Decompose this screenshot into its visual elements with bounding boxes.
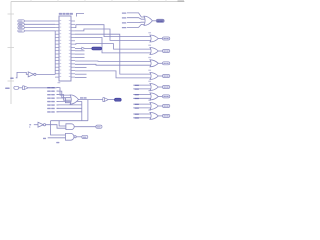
output label O11 — [82, 135, 88, 138]
sheet border left — [10, 2, 12, 105]
input label R8b — [135, 117, 139, 118]
output label RO4 — [162, 75, 169, 78]
sheet zone tick top 5 — [138, 0, 140, 2]
wire R7 out — [158, 105, 162, 107]
output label T-OUT — [156, 19, 164, 22]
input port A3 — [18, 30, 25, 32]
output label RO8 — [162, 114, 169, 117]
wire RST label to inverter — [16, 72, 28, 77]
designator R2 — [148, 45, 151, 46]
sheet zone tick top 6 — [165, 0, 167, 2]
wire net W1 — [75, 25, 151, 37]
wire net W3 — [75, 34, 151, 74]
input label R7a — [135, 104, 139, 105]
wire net W9 flagged — [75, 47, 82, 49]
wire row3 stub — [57, 94, 59, 96]
wire R3 out — [158, 62, 162, 64]
output label RO7 — [162, 105, 169, 108]
wire input A1 to IC — [24, 23, 55, 25]
net label row3 — [47, 94, 51, 95]
output label RO3 — [162, 62, 169, 65]
designator R4 — [148, 70, 151, 71]
designator R7 — [148, 100, 151, 101]
designator R3 — [148, 57, 151, 58]
net label row7 — [47, 108, 51, 109]
sheet zone tick top 2 — [57, 0, 59, 2]
wire T0 to G4 — [127, 13, 144, 17]
wire label to G3 — [48, 137, 66, 139]
wire G3 output — [76, 136, 82, 138]
wire row3 to G1 — [57, 95, 71, 101]
wire R5b — [133, 88, 151, 90]
wire G1 branch down — [87, 100, 89, 121]
wire T2 to G4 — [127, 21, 144, 23]
IC U4 body — [59, 16, 71, 81]
wire row2 to G1 — [57, 91, 71, 98]
filled net label W9 — [92, 47, 102, 50]
wire row4 stub — [57, 97, 59, 99]
wire branch to G3 — [51, 121, 66, 135]
wire row1 to G1 — [57, 88, 71, 96]
wire R5a — [133, 84, 151, 86]
wire branch to G2 — [59, 121, 66, 126]
or-gate R7 — [150, 103, 158, 110]
wire inverter out — [36, 73, 55, 75]
wire stub S2 — [75, 53, 85, 55]
net label row4 — [47, 97, 51, 98]
wire row8 to bus — [57, 111, 82, 113]
wire R6b — [133, 97, 151, 99]
wire R6 out — [158, 95, 162, 97]
or-gate R6 — [150, 93, 158, 100]
input label R6a — [135, 94, 139, 95]
wire row6 stub — [57, 104, 59, 106]
wire G2 output — [74, 126, 96, 128]
or-gate R4 — [150, 73, 158, 80]
wire row1 stub — [57, 87, 59, 89]
designator R6 — [148, 90, 151, 91]
net label row5 — [47, 101, 51, 102]
input label T1 — [122, 17, 126, 18]
wire R8a — [133, 113, 151, 115]
or-gate R3 — [150, 60, 158, 67]
sheet zone tick left 1 — [8, 13, 15, 15]
wire R8b — [133, 117, 151, 119]
sheet zone tick left 3 — [8, 80, 15, 82]
IC U4 refdes label — [59, 13, 62, 15]
sheet border top — [11, 1, 185, 3]
sheet zone tick left 2 — [8, 47, 15, 49]
wire net W5 — [75, 60, 151, 62]
or-gate R5 — [150, 84, 158, 91]
wire P1 to label — [108, 99, 114, 101]
sheet zone tick top 3 — [84, 0, 86, 2]
inverter U5A — [28, 72, 34, 77]
wire inverter2 to G2 — [46, 125, 66, 129]
wire R1 out — [158, 38, 162, 40]
wire R2 out — [158, 50, 162, 52]
input label R6b — [135, 98, 139, 99]
wire T1 to G4 — [127, 18, 144, 20]
wire stub S1 — [75, 50, 85, 52]
flag W9 — [82, 47, 85, 49]
wire input A2 to IC — [24, 27, 55, 29]
net label row2 — [47, 91, 51, 92]
wire T3 to G4 — [127, 24, 144, 27]
wire row2 stub — [57, 90, 59, 92]
and-gate G2 — [66, 124, 74, 130]
filled net label L1 — [115, 98, 122, 101]
wire input A0 to IC — [24, 20, 55, 22]
inverter U6A — [38, 122, 43, 127]
wire G1 output — [79, 99, 103, 101]
port symbol P1 — [103, 98, 105, 102]
wire row8 stub — [57, 111, 59, 113]
output label RO6 — [162, 95, 169, 98]
wire inverter to IC pin — [54, 31, 56, 75]
input port A0 — [18, 20, 25, 22]
IC U4 right pins — [71, 20, 75, 22]
net label INV2 — [29, 124, 31, 125]
wire row5 to bus — [57, 100, 82, 102]
wire stub S3 — [75, 56, 85, 58]
wire IC pin top jog — [76, 14, 84, 17]
net label row1 — [47, 87, 51, 88]
output label RO5 — [162, 86, 169, 89]
net label row6 — [47, 104, 51, 105]
wire R4 out — [158, 75, 162, 77]
designator R5 — [148, 81, 151, 82]
input label R5b — [135, 89, 139, 90]
designator G3 — [56, 142, 59, 143]
IC U4 pin numbers — [60, 19, 62, 22]
net label RST — [10, 78, 13, 79]
IC U4 left pins — [55, 20, 59, 22]
net label G1OUT — [80, 97, 83, 98]
port label ENB — [5, 88, 9, 89]
wire net W6 — [75, 63, 151, 66]
input label T0 — [122, 13, 126, 14]
wire W9 to label — [85, 47, 92, 49]
or-gate G4 4-input — [144, 16, 152, 25]
nand-gate G3 — [66, 133, 75, 140]
designator G1 — [58, 82, 61, 83]
or-gate R8 — [150, 112, 158, 119]
net label row8 — [47, 111, 51, 112]
designator R8 — [148, 110, 151, 111]
wire R7a — [133, 103, 151, 105]
sheet zone tick top 1 — [30, 0, 32, 2]
wire R5 out — [158, 86, 162, 88]
input label R7b — [135, 108, 139, 109]
wire stub S6 — [75, 67, 87, 69]
wire input A3 to IC — [24, 30, 55, 32]
wire row5 stub — [57, 100, 59, 102]
net label G3IN — [43, 138, 46, 139]
wire net W8 — [75, 71, 151, 78]
input port A2 — [18, 26, 25, 28]
wire net W10 — [75, 44, 151, 50]
wire buffer out to row1 — [28, 87, 56, 89]
wire net W4 — [75, 38, 151, 53]
input label R5a — [135, 85, 139, 86]
input port A1 — [18, 23, 25, 25]
wire R6a — [133, 94, 151, 96]
wire R8 out — [158, 115, 162, 117]
wire row6 to bus — [57, 104, 82, 106]
or-gate R1 — [150, 35, 158, 42]
wire G4 out — [152, 20, 156, 22]
output label RO1 — [162, 37, 169, 40]
wire net W2 — [75, 29, 151, 40]
designator R1 — [148, 32, 151, 33]
input label R8a — [135, 114, 139, 115]
wire R7b — [133, 107, 151, 109]
wire row7 to bus — [57, 107, 82, 109]
wire branch horizontal — [51, 120, 88, 122]
wire row4 to G1 — [57, 98, 71, 103]
sheet zone tick top 4 — [111, 0, 113, 2]
wire ENB to buffer — [19, 87, 23, 89]
wire label to inverter2 — [34, 124, 38, 126]
or-gate G1 — [70, 95, 78, 104]
buffer B1 — [23, 86, 25, 90]
wire stub S4 — [75, 73, 87, 75]
output label O10 — [96, 125, 102, 128]
wire stub S5 — [75, 77, 87, 79]
sheet zone label top-right — [178, 0, 185, 2]
input label T2 — [122, 22, 126, 23]
wire bus vertical rows5-8 — [81, 101, 83, 120]
input label T3 — [122, 27, 126, 28]
or-gate R2 — [150, 48, 158, 55]
output label RO2 — [162, 50, 169, 53]
wire row7 stub — [57, 107, 59, 109]
